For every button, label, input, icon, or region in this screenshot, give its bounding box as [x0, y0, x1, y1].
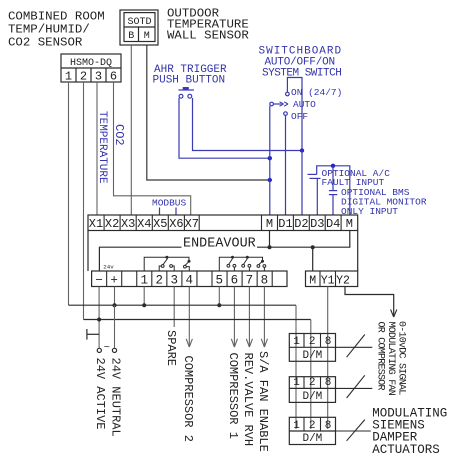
svg-text:1: 1	[65, 69, 72, 83]
svg-text:MODBUS: MODBUS	[152, 197, 187, 208]
svg-text:1: 1	[293, 336, 300, 348]
wire M rail to bottom M terminal	[312, 247, 314, 271]
svg-text:B: B	[128, 31, 134, 42]
svg-text:Y2: Y2	[336, 274, 350, 287]
contact optional A/C fault input	[308, 173, 317, 175]
relay contact K5	[259, 261, 263, 265]
node PB/ON junction	[300, 148, 304, 152]
svg-text:−: −	[95, 273, 103, 287]
wire terminal 3 spare	[173, 287, 175, 328]
contact optional BMS input	[332, 166, 334, 191]
relay contact K2 pivot	[188, 260, 191, 263]
svg-text:0-10vDC SIGNAL: 0-10vDC SIGNAL	[396, 321, 407, 395]
svg-text:WALL SENSOR: WALL SENSOR	[167, 29, 249, 43]
wire 24V neutral	[114, 305, 116, 348]
svg-text:2: 2	[155, 273, 163, 287]
svg-text:X2: X2	[105, 217, 119, 231]
wire MODBUS to X5	[159, 208, 161, 216]
svg-text:OR COMPRESSOR: OR COMPRESSOR	[375, 322, 386, 391]
svg-text:24V ACTIVE: 24V ACTIVE	[93, 358, 107, 430]
svg-text:5: 5	[216, 273, 224, 287]
wire + terminal to 24V rail	[114, 287, 116, 306]
svg-text:8: 8	[261, 273, 269, 287]
svg-text:X3: X3	[121, 217, 135, 231]
svg-text:X7: X7	[185, 217, 199, 231]
svg-text:ACTUATORS: ACTUATORS	[372, 443, 440, 457]
svg-text:HSMO-DQ: HSMO-DQ	[70, 58, 112, 69]
wire A/C fault contact to D3	[316, 178, 318, 215]
sensor SOTD box	[120, 10, 158, 45]
wire relay bracket terminals 5-8	[219, 257, 262, 271]
svg-text:CO2 SENSOR: CO2 SENSOR	[8, 36, 83, 50]
svg-text:6: 6	[231, 273, 239, 287]
wire SOTD-M to M common	[147, 45, 270, 180]
svg-text:~: ~	[104, 342, 110, 354]
terminal 24V neutral	[112, 348, 116, 352]
svg-text:24V NEUTRAL: 24V NEUTRAL	[108, 358, 122, 437]
svg-text:ON (24/7): ON (24/7)	[291, 87, 342, 98]
svg-text:7: 7	[246, 273, 254, 287]
actuator D/M box 1	[289, 334, 335, 362]
controller left edge	[87, 231, 89, 272]
terminal 24V active	[97, 348, 101, 352]
svg-text:TEMPERATURE: TEMPERATURE	[96, 111, 108, 184]
wire terminal 5 to 24V rail	[218, 287, 220, 306]
svg-text:PUSH BUTTON: PUSH BUTTON	[153, 74, 226, 86]
svg-text:X4: X4	[137, 217, 151, 231]
node M rail junction 2	[311, 245, 315, 249]
relay contact K3	[229, 259, 233, 265]
wire BMS contact to D4	[332, 195, 334, 215]
relay contact K5 pivot	[261, 260, 264, 263]
svg-text:2: 2	[309, 420, 316, 432]
svg-text:X6: X6	[169, 217, 183, 231]
node 5 on 24V rail	[217, 303, 221, 307]
wire - terminal to 0V rail and 24V active	[98, 287, 100, 349]
sensor HSMO-DQ box	[61, 54, 121, 82]
svg-text:OFF: OFF	[291, 111, 308, 122]
svg-text:2: 2	[80, 69, 87, 83]
wire HSMO-6 to X7 (CO2)	[114, 82, 191, 215]
svg-text:ENDEAVOUR: ENDEAVOUR	[183, 236, 256, 251]
switch S2 pole terminal	[270, 102, 274, 106]
wire terminal 4 compressor 2	[188, 287, 190, 348]
svg-text:+: +	[110, 273, 118, 287]
svg-text:MODULATING FAN: MODULATING FAN	[385, 322, 396, 396]
node PB/M junction	[268, 156, 272, 160]
wire switch pole to M terminal	[269, 106, 271, 215]
svg-text:M: M	[309, 274, 316, 287]
wire switch ON terminal to D2	[287, 78, 302, 216]
relay contact K3 pivot	[231, 256, 234, 259]
wire terminal 7 reversing valve	[248, 287, 250, 348]
wire 0V rail to D/M terminal 2	[310, 320, 312, 430]
node SOTD-M/M-pole junction	[268, 178, 272, 182]
svg-text:SOTD: SOTD	[127, 17, 151, 28]
svg-text:M: M	[266, 217, 273, 231]
push button S1 contacts	[179, 94, 183, 98]
wire 0V rail	[84, 319, 311, 321]
svg-text:2: 2	[309, 377, 316, 389]
relay contact K4	[243, 259, 247, 265]
svg-text:S/A FAN ENABLE: S/A FAN ENABLE	[256, 351, 270, 452]
leader actuator 2	[336, 387, 373, 389]
switch S2 OFF terminal	[284, 112, 288, 116]
wire HSMO-2 to 0V rail	[83, 82, 85, 320]
relay contact K4 pivot	[246, 256, 249, 259]
svg-text:D1: D1	[278, 217, 292, 231]
leader actuator 1	[336, 346, 373, 348]
node + on 24V rail	[113, 303, 117, 307]
supply reference bar	[86, 329, 88, 340]
wire M common rail to - terminal	[99, 247, 181, 271]
svg-text:1: 1	[140, 273, 148, 287]
wire SOTD-B to X3	[130, 45, 132, 215]
controller right edge	[357, 231, 359, 272]
svg-text:X1: X1	[89, 217, 103, 231]
node - on 0V rail	[97, 318, 101, 322]
terminal strip X1-X7 M D1-D4 M	[88, 215, 358, 231]
wire terminal 8 fan enable	[263, 287, 265, 348]
wire terminal 6 compressor 1	[233, 287, 235, 348]
wire push button right leg to trigger line	[193, 98, 303, 151]
svg-text:REV.VALVE RVH: REV.VALVE RVH	[241, 353, 255, 447]
svg-text:D4: D4	[326, 217, 340, 231]
svg-text:D2: D2	[294, 217, 308, 231]
svg-text:4: 4	[186, 273, 194, 287]
svg-text:COMPRESSOR 2: COMPRESSOR 2	[181, 356, 195, 442]
wire HSMO-3 to X1 (temperature)	[96, 82, 98, 215]
svg-text:8: 8	[325, 377, 332, 389]
svg-text:COMBINED ROOM: COMBINED ROOM	[8, 10, 105, 24]
push button S1 actuator	[178, 89, 194, 91]
node M rail junction 1	[268, 245, 272, 249]
actuator D/M box 2	[289, 377, 335, 403]
svg-text:X5: X5	[153, 217, 167, 231]
wire terminal 1 to 24V rail	[143, 287, 145, 306]
switch S2 blade to AUTO	[273, 103, 281, 105]
relay contact K2	[185, 262, 188, 266]
svg-text:AUTO: AUTO	[293, 99, 316, 110]
svg-text:8: 8	[325, 336, 332, 348]
svg-text:SPARE: SPARE	[164, 330, 178, 366]
wire MODBUS to X6	[175, 208, 177, 216]
relay contact K1	[163, 259, 168, 265]
svg-text:SWITCHBOARD: SWITCHBOARD	[259, 45, 343, 57]
node optional input junction	[331, 164, 335, 168]
svg-text:D3: D3	[310, 217, 324, 231]
wire M terminal drop	[269, 231, 271, 248]
svg-text:M: M	[346, 217, 353, 231]
switch S2 ON terminal	[286, 92, 290, 96]
leader actuator 3	[336, 430, 371, 432]
svg-text:8: 8	[325, 420, 332, 432]
wire optional inputs common to M	[317, 166, 350, 215]
svg-text:M: M	[144, 31, 150, 42]
wire Y1 to D/M terminal 8	[327, 287, 329, 430]
svg-text:TEMP/HUMID/: TEMP/HUMID/	[8, 23, 90, 37]
svg-text:CO2: CO2	[112, 124, 126, 146]
wire 24V rail to D/M terminal 1	[295, 305, 297, 429]
node 1 on 24V rail	[142, 303, 146, 307]
svg-text:2: 2	[309, 336, 316, 348]
svg-text:D/M: D/M	[302, 350, 322, 362]
svg-text:COMPRESSOR 1: COMPRESSOR 1	[226, 353, 240, 439]
svg-text:24v: 24v	[103, 263, 114, 270]
svg-text:1: 1	[293, 377, 300, 389]
svg-text:D/M: D/M	[302, 391, 322, 403]
svg-text:3: 3	[170, 273, 178, 287]
wire switch OFF terminal to D1	[285, 115, 287, 215]
svg-text:D/M: D/M	[302, 433, 322, 445]
svg-text:3: 3	[95, 69, 102, 83]
relay contact K1 pivot	[165, 256, 168, 259]
wire relay bracket terminals 1-4	[144, 257, 189, 271]
wire push button left leg to M common	[179, 98, 270, 158]
wire 24V rail	[69, 304, 297, 306]
svg-text:Y1: Y1	[321, 274, 335, 287]
actuator D/M box 3	[289, 417, 335, 444]
terminal strip - + 1-8	[92, 271, 287, 287]
wire Y2 to 0-10v signal arrow	[345, 287, 394, 318]
svg-text:1: 1	[293, 420, 300, 432]
wire HSMO-1 to 24V rail	[68, 82, 70, 305]
svg-text:6: 6	[110, 69, 117, 83]
terminal strip M Y1 Y2	[306, 271, 358, 287]
